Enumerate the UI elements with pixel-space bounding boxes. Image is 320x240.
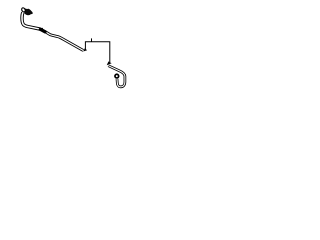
callout label 1 tick	[91, 38, 92, 41]
pipe lower section with hook end (double-line tube)	[108, 66, 125, 87]
pipe main run lower section (double-line tube)	[40, 29, 83, 50]
pipe main run upper section (double-line tube)	[22, 12, 41, 29]
hose end fitting (top-left) solid connector body	[24, 9, 33, 16]
eyelet ring at hook end	[115, 74, 119, 78]
clamp sleeve on pipe	[40, 28, 45, 32]
hose end fitting flared opening (small cylinder)	[21, 7, 26, 12]
leader arrowhead left (points to pipe end)	[83, 48, 87, 51]
leader arrowhead right (points to pipe lower section)	[107, 61, 112, 65]
callout leader bracket	[85, 42, 109, 63]
